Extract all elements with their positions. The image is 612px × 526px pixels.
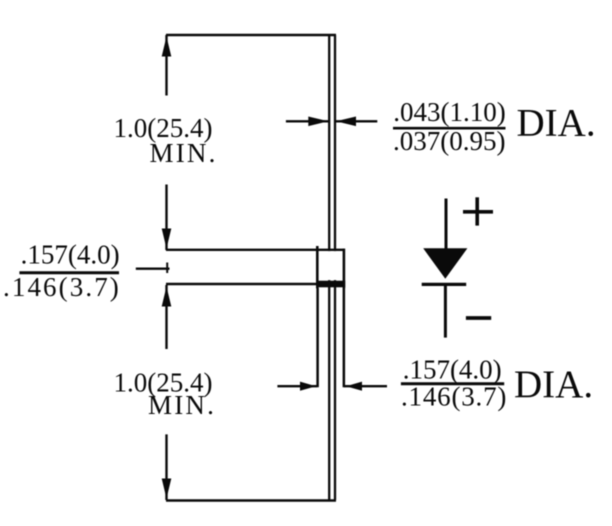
svg-text:MIN.: MIN.: [148, 390, 216, 420]
svg-text:.043(1.10): .043(1.10): [393, 97, 505, 127]
svg-text:.037(0.95): .037(0.95): [393, 126, 505, 156]
svg-text:DIA.: DIA.: [514, 363, 593, 406]
svg-text:.157(4.0): .157(4.0): [403, 354, 502, 384]
svg-text:.146(3.7): .146(3.7): [401, 381, 507, 411]
svg-text:DIA.: DIA.: [517, 101, 596, 144]
svg-text:.157(4.0): .157(4.0): [21, 240, 120, 270]
svg-text:.146(3.7): .146(3.7): [3, 272, 121, 302]
svg-text:MIN.: MIN.: [150, 138, 218, 168]
